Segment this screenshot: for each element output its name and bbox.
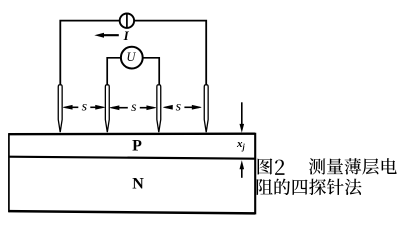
svg-text:N: N (132, 176, 144, 193)
svg-text:s: s (176, 100, 182, 115)
svg-text:I: I (123, 28, 130, 43)
svg-text:U: U (126, 50, 136, 64)
svg-text:s: s (82, 100, 88, 115)
svg-text:s: s (131, 100, 137, 115)
svg-text:P: P (132, 137, 142, 154)
